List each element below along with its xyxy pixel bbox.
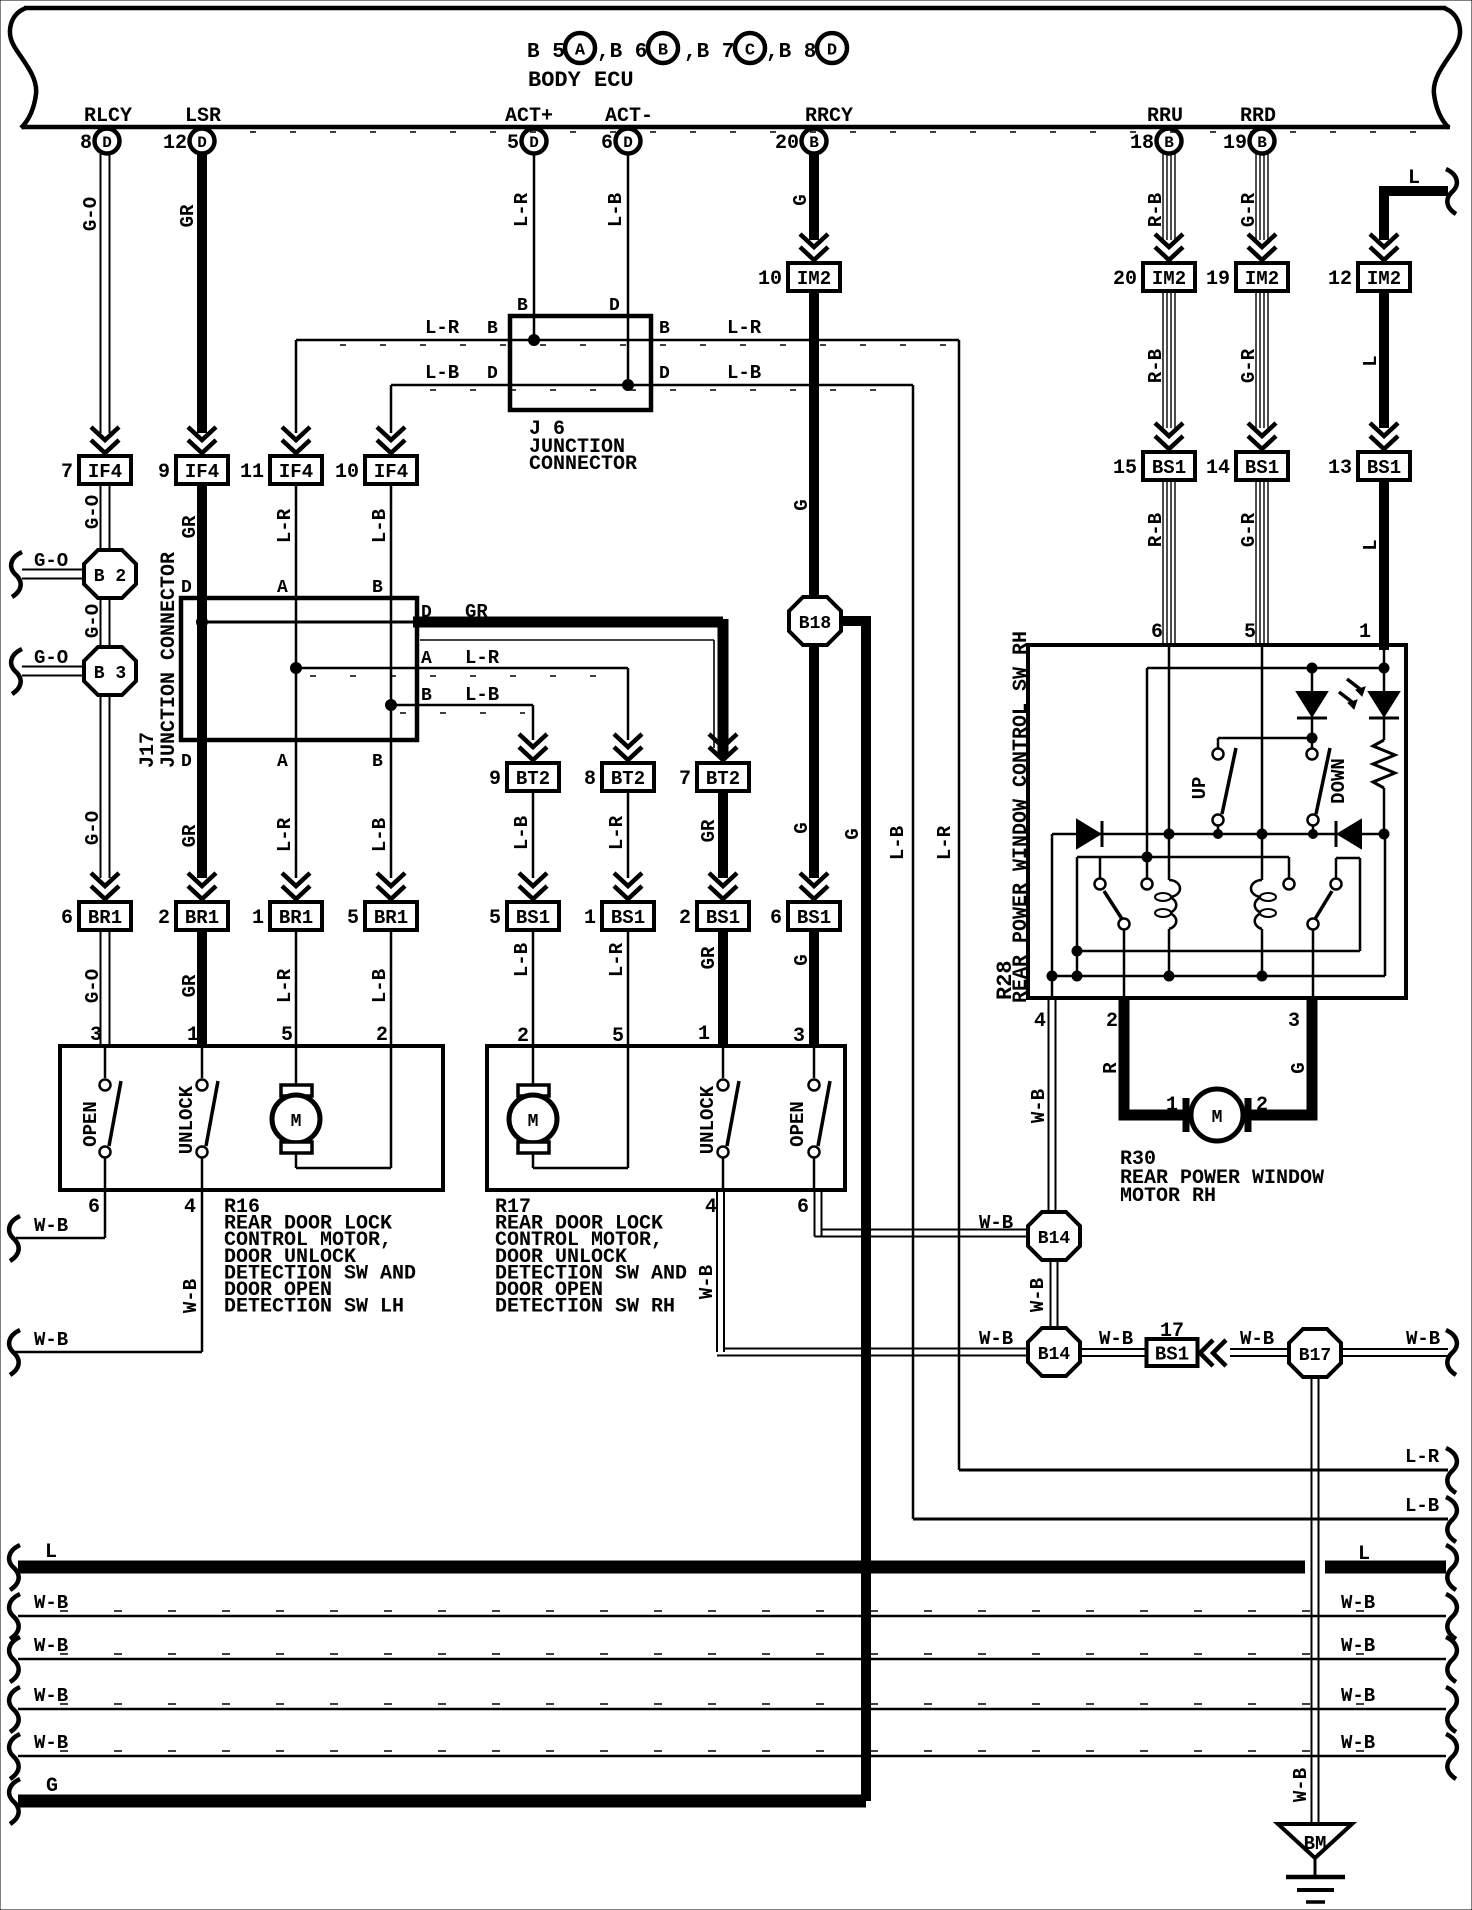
- diode D1 (down) feeding switch contacts: [1311, 668, 1314, 692]
- header circled letter D: [817, 33, 847, 63]
- R28 pin 6 wire to relay coil 1: [1168, 645, 1171, 880]
- arrow into 6 BS1: [800, 873, 828, 886]
- svg-text:W-B: W-B: [34, 1635, 68, 1657]
- OPEN switch in R16: [104, 1046, 107, 1078]
- ECU pin 6 (D) ACT-: [616, 129, 641, 154]
- wire W-B from R17 pin 4 to splice B14 lower: [716, 1190, 718, 1352]
- arrow into 8 BT2: [614, 734, 642, 747]
- svg-text:L-R: L-R: [465, 647, 500, 669]
- arrow out of 17 BS1 (left): [1200, 1340, 1213, 1366]
- motor R30 body: [1191, 1089, 1243, 1141]
- svg-text:W-B: W-B: [34, 1329, 68, 1351]
- wire L-B from IF4 into J17: [390, 484, 393, 600]
- connector 6 BR1: [79, 902, 131, 930]
- svg-text:ACT-: ACT-: [605, 105, 653, 128]
- connector 9 IF4: [176, 456, 228, 484]
- svg-text:11: 11: [240, 461, 264, 484]
- wire W-B from R16 pin 4 to page edge: [201, 1190, 204, 1352]
- LED light arrows: [1347, 679, 1360, 689]
- svg-text:B14: B14: [1038, 1345, 1071, 1365]
- svg-text:L-B: L-B: [511, 943, 533, 977]
- svg-text:L: L: [1408, 167, 1420, 190]
- connector 20 IM2: [1143, 263, 1195, 291]
- svg-text:D: D: [623, 134, 633, 152]
- connector 5 BS1: [507, 902, 559, 930]
- wire L-R from 8 BT2 to 1 BS1: [627, 791, 630, 878]
- wire L-R from BS1 to R17 pin 5: [627, 930, 630, 1046]
- svg-text:G: G: [790, 194, 812, 205]
- wire R-B from pin 18 RRU to 20 IM2: [1162, 154, 1164, 240]
- svg-text:W-B: W-B: [180, 1279, 202, 1313]
- connector 2 BS1: [697, 902, 749, 930]
- svg-text:J17: J17: [137, 732, 160, 768]
- junction dot L-R in J17: [291, 663, 302, 674]
- svg-text:L: L: [1358, 1543, 1370, 1566]
- svg-text:G: G: [1288, 1062, 1310, 1073]
- svg-text:G-O: G-O: [34, 550, 68, 572]
- svg-text:ACT+: ACT+: [505, 105, 553, 128]
- ground stem and bars: [1314, 1858, 1317, 1877]
- svg-text:B: B: [372, 752, 383, 772]
- wire G-O from B3 to BR1: [100, 695, 102, 878]
- svg-text:B: B: [517, 296, 528, 316]
- svg-text:6: 6: [601, 132, 613, 155]
- wire L-R from BR1 to R16 pin 5: [295, 930, 298, 1046]
- wire G-R from BS1 to R28 pin 5: [1255, 480, 1257, 645]
- R28 rear power window control switch RH box: [1028, 645, 1406, 998]
- connector 1 BS1: [602, 902, 654, 930]
- svg-text:R: R: [1100, 1062, 1122, 1074]
- svg-text:G-R: G-R: [1238, 512, 1260, 547]
- junction connector J17 box: [181, 598, 417, 740]
- svg-text:IF4: IF4: [374, 461, 408, 483]
- arrow into 20 IM2: [1155, 234, 1183, 247]
- wire G-O from pin 8 to connector IF4: [100, 154, 102, 433]
- svg-text:IF4: IF4: [279, 461, 313, 483]
- svg-text:RRCY: RRCY: [805, 105, 853, 128]
- svg-text:M: M: [1212, 1108, 1223, 1128]
- arrow into 10 IM2: [800, 234, 828, 247]
- svg-text:G: G: [791, 499, 813, 510]
- connector 12 IM2: [1358, 263, 1410, 291]
- wire L-R from IF4 into J17: [295, 484, 298, 600]
- svg-text:L-R: L-R: [727, 317, 762, 339]
- svg-text:W-B: W-B: [34, 1685, 68, 1707]
- svg-text:2: 2: [679, 907, 691, 930]
- svg-text:W-B: W-B: [34, 1592, 68, 1614]
- wire G-O from B2 to B3: [100, 598, 102, 648]
- junction dot ACT+ / L-R: [529, 335, 540, 346]
- wire G-R from pin 19 RRD to 19 IM2: [1255, 154, 1257, 240]
- relay frame vertical: [1076, 857, 1079, 976]
- bus wire W-B #1 across page: [18, 1615, 1446, 1618]
- arrow into 7 IF4: [91, 427, 119, 440]
- svg-text:3: 3: [1288, 1010, 1300, 1033]
- svg-text:R-B: R-B: [1145, 513, 1167, 547]
- connector 15 BS1: [1143, 452, 1195, 480]
- wire L-R branch (A) from J17 to 8 BT2: [296, 667, 628, 670]
- svg-text:BT2: BT2: [611, 768, 645, 790]
- svg-text:W-B: W-B: [34, 1732, 68, 1754]
- connector 2 BR1: [176, 902, 228, 930]
- wire G from B18 down to 6 BS1: [809, 645, 819, 878]
- wire L-B through J17 to BR1: [390, 600, 393, 878]
- wire L-B from J6 line down to 10 IF4: [390, 385, 393, 433]
- svg-text:W-B: W-B: [1406, 1328, 1440, 1350]
- svg-text:IM2: IM2: [797, 268, 831, 290]
- relay armature 2 pivot link: [1335, 858, 1338, 878]
- wire G-O from IF4 to B2: [100, 484, 102, 552]
- diode D2 (pointing right) on mid bus left: [1077, 820, 1100, 848]
- svg-text:GR: GR: [179, 824, 201, 847]
- R28 pin 5 wire to relay coil 2: [1261, 645, 1264, 880]
- connector 13 BS1: [1358, 452, 1410, 480]
- svg-text:6: 6: [1151, 621, 1163, 644]
- switch feed rail to UP contact: [1218, 737, 1312, 740]
- wire GR branch (D) from J17 to 7 BT2: [202, 621, 415, 624]
- motor R30 terminals: [1183, 1098, 1190, 1132]
- relay armature 1 pivot: [1095, 879, 1106, 890]
- svg-text:JUNCTION CONNECTOR: JUNCTION CONNECTOR: [158, 552, 181, 768]
- arrow into 1 BR1: [282, 873, 310, 886]
- svg-text:OPEN: OPEN: [787, 1101, 809, 1147]
- svg-text:,B 8: ,B 8: [766, 41, 816, 64]
- relay fixed contact 1 drop: [1146, 668, 1149, 878]
- wire GR thick from 7 BT2 to 2 BS1: [718, 791, 728, 878]
- svg-text:BM: BM: [1304, 1833, 1327, 1855]
- svg-text:5: 5: [1244, 621, 1256, 644]
- svg-text:UP: UP: [1189, 777, 1211, 800]
- relay coil 1: [1169, 880, 1180, 929]
- wire G branch from B18 right going down to ground bus: [840, 621, 866, 1801]
- R28 internal top rail: [1147, 667, 1385, 670]
- svg-text:B: B: [421, 686, 432, 706]
- svg-text:L-B: L-B: [369, 818, 391, 852]
- wire L-R vertical from J6 to bottom right bus: [958, 340, 961, 1470]
- svg-text:L-R: L-R: [274, 968, 296, 1003]
- svg-text:RLCY: RLCY: [84, 105, 132, 128]
- R28 internal mid bus: [1052, 833, 1078, 836]
- svg-text:4: 4: [184, 1196, 196, 1219]
- svg-text:BS1: BS1: [1367, 457, 1401, 479]
- page edge brace: [11, 552, 22, 597]
- svg-text:10: 10: [335, 461, 359, 484]
- svg-text:G-O: G-O: [80, 197, 102, 231]
- bus wire L-R to right page edge: [959, 1469, 1448, 1472]
- svg-text:L-R: L-R: [274, 508, 296, 543]
- motor return wire to pin 2 in R16: [295, 1152, 298, 1168]
- R28 pin 4 wire exit: [1051, 976, 1054, 998]
- svg-text:L-R: L-R: [934, 825, 956, 860]
- svg-text:W-B: W-B: [696, 1265, 718, 1299]
- svg-text:6: 6: [797, 1196, 809, 1219]
- R16 rear door lock control motor LH box: [60, 1046, 443, 1190]
- svg-text:W-B: W-B: [34, 1215, 68, 1237]
- wire L-B vertical from J6 to bottom right bus: [912, 385, 915, 1519]
- svg-text:L-R: L-R: [274, 817, 296, 852]
- svg-text:BS1: BS1: [1152, 457, 1186, 479]
- svg-text:3: 3: [90, 1024, 102, 1047]
- svg-text:B 3: B 3: [94, 664, 126, 684]
- svg-text:5: 5: [507, 132, 519, 155]
- svg-text:W-B: W-B: [1027, 1278, 1049, 1312]
- svg-text:M: M: [528, 1112, 539, 1132]
- svg-text:L-R: L-R: [606, 942, 628, 977]
- svg-text:5: 5: [347, 907, 359, 930]
- wire GR from BS1 to R17 pin 1: [718, 930, 728, 1046]
- DOWN switch fixed contact feed: [1311, 738, 1314, 748]
- connector 10 IM2: [788, 263, 840, 291]
- junction dot frame/return rail: [1072, 946, 1082, 956]
- wire W-B from R28 pin 4 down to B14 upper: [1048, 998, 1050, 1212]
- svg-text:L-B: L-B: [511, 816, 533, 850]
- wire W-B from B17 down to ground: [1311, 1377, 1313, 1822]
- relay armature 1 pivot link: [1099, 857, 1102, 878]
- arrow into 5 BR1: [377, 873, 405, 886]
- svg-text:D: D: [197, 134, 207, 152]
- svg-text:BR1: BR1: [185, 907, 219, 929]
- svg-text:L: L: [1360, 355, 1382, 366]
- bus wire L-B to right page edge: [913, 1518, 1448, 1521]
- junction dot L-B in J17: [386, 700, 397, 711]
- svg-text:9: 9: [489, 768, 501, 791]
- page edge brace: [1446, 1448, 1457, 1493]
- svg-text:W-B: W-B: [1099, 1328, 1133, 1350]
- svg-text:IM2: IM2: [1245, 268, 1279, 290]
- svg-text:G-O: G-O: [82, 604, 104, 638]
- svg-text:G: G: [842, 828, 864, 839]
- svg-text:BR1: BR1: [279, 907, 313, 929]
- UP switch fixed contact: [1213, 749, 1224, 760]
- svg-text:GR: GR: [698, 946, 720, 969]
- connector 1 BR1: [270, 902, 322, 930]
- svg-text:W-B: W-B: [1341, 1732, 1375, 1754]
- svg-text:2: 2: [158, 907, 170, 930]
- wire W-B from B17 to right page edge: [1340, 1348, 1448, 1350]
- svg-text:L-R: L-R: [425, 317, 460, 339]
- ECU band left torn edge: [10, 8, 36, 128]
- svg-text:8: 8: [80, 132, 92, 155]
- relay coil 2: [1251, 880, 1262, 929]
- svg-text:1: 1: [1166, 1094, 1178, 1117]
- wire G-O stub to page edge at B3: [22, 666, 84, 668]
- svg-text:RRD: RRD: [1240, 105, 1276, 128]
- bus wire W-B #4 across page: [18, 1755, 1446, 1758]
- svg-text:UNLOCK: UNLOCK: [697, 1085, 719, 1154]
- relay fixed contact 2 drop: [1288, 857, 1291, 878]
- page edge brace: [1446, 1330, 1457, 1375]
- connector 10 IF4: [365, 456, 417, 484]
- svg-text:D: D: [421, 603, 432, 623]
- svg-text:1: 1: [187, 1024, 199, 1047]
- arrow into 7 BT2: [709, 734, 737, 747]
- junction dot top rail / diode branch: [1307, 663, 1317, 673]
- svg-text:W-B: W-B: [979, 1328, 1013, 1350]
- svg-text:,B 7: ,B 7: [684, 41, 734, 64]
- wire W-B from B14 to 17 BS1: [1080, 1348, 1147, 1350]
- arrow into 5 BS1: [519, 873, 547, 886]
- svg-text:13: 13: [1328, 457, 1352, 480]
- wire L-B horizontal through J6: [391, 384, 913, 387]
- UP switch blade: [1222, 748, 1236, 814]
- arrow into 10 IF4: [377, 427, 405, 440]
- svg-text:B 2: B 2: [94, 567, 126, 587]
- junction dot ACT- / L-B: [623, 380, 634, 391]
- svg-text:R-B: R-B: [1145, 349, 1167, 383]
- motor in R17: [532, 1046, 535, 1086]
- page edge brace: [11, 649, 22, 694]
- wire L-R through J17 to BR1: [295, 600, 298, 878]
- ECU pin 18 (B) RRU: [1157, 129, 1182, 154]
- svg-text:W-B: W-B: [1341, 1685, 1375, 1707]
- junction dot switch feed rail: [1307, 733, 1317, 743]
- splice B 2: [84, 550, 136, 598]
- svg-text:UNLOCK: UNLOCK: [176, 1085, 198, 1154]
- svg-text:5: 5: [281, 1024, 293, 1047]
- connector 9 BT2: [507, 763, 559, 791]
- svg-text:W-B: W-B: [1240, 1328, 1274, 1350]
- wire G-O from BR1 to R16 pin 3: [100, 930, 102, 1046]
- svg-text:L-R: L-R: [511, 192, 533, 227]
- page edge brace: [9, 1330, 20, 1375]
- arrow into 9 IF4: [188, 427, 216, 440]
- svg-text:L-B: L-B: [465, 684, 499, 706]
- wire L-B from BS1 to R17 pin 2: [532, 930, 535, 1046]
- svg-text:G-O: G-O: [82, 811, 104, 845]
- svg-text:B: B: [1164, 134, 1174, 152]
- ECU pin 19 (B) RRD: [1250, 129, 1275, 154]
- svg-text:10: 10: [758, 268, 782, 291]
- svg-text:1: 1: [698, 1023, 710, 1046]
- svg-text:A: A: [421, 649, 432, 669]
- svg-text:B 5: B 5: [527, 41, 565, 64]
- svg-text:BS1: BS1: [706, 907, 740, 929]
- scan artifacts: [340, 344, 950, 346]
- wire L-B from BR1 to R16 pin 2: [390, 930, 393, 1046]
- svg-text:L-B: L-B: [887, 826, 909, 860]
- svg-text:G-R: G-R: [1238, 348, 1260, 383]
- svg-text:7: 7: [61, 461, 73, 484]
- wire L-R from J6 line down to 11 IF4: [295, 340, 298, 433]
- svg-text:GR: GR: [179, 974, 201, 997]
- svg-text:GR: GR: [465, 601, 488, 623]
- wire W-B between B14 splices: [1050, 1260, 1052, 1328]
- splice B17: [1289, 1329, 1341, 1377]
- svg-text:1: 1: [252, 907, 264, 930]
- svg-text:REAR POWER WINDOW CONTROL SW R: REAR POWER WINDOW CONTROL SW RH: [1010, 631, 1033, 1003]
- svg-text:19: 19: [1223, 132, 1247, 155]
- svg-text:LSR: LSR: [185, 105, 221, 128]
- arrow into 6 BR1: [91, 873, 119, 886]
- OPEN switch in R17: [813, 1046, 816, 1078]
- junction dots bottom rail: [1047, 971, 1057, 981]
- svg-text:7: 7: [679, 768, 691, 791]
- svg-text:W-B: W-B: [1290, 1768, 1312, 1802]
- svg-text:G: G: [46, 1775, 58, 1798]
- wire W-B from R16 pin 6 to page edge: [104, 1190, 107, 1238]
- wire G from BS1 to R17 pin 3: [809, 930, 819, 1046]
- svg-text:L-R: L-R: [606, 815, 628, 850]
- svg-text:A: A: [575, 42, 586, 61]
- svg-text:L: L: [1360, 539, 1382, 550]
- svg-text:BR1: BR1: [374, 907, 408, 929]
- svg-text:14: 14: [1206, 457, 1230, 480]
- arrow into 14 BS1: [1248, 423, 1276, 436]
- svg-text:6: 6: [770, 907, 782, 930]
- connector 6 BS1: [788, 902, 840, 930]
- svg-text:B17: B17: [1299, 1346, 1331, 1366]
- svg-text:BR1: BR1: [88, 907, 122, 929]
- svg-text:BS1: BS1: [611, 907, 645, 929]
- svg-text:B: B: [487, 319, 498, 339]
- svg-text:20: 20: [1113, 268, 1137, 291]
- arrow into 9 BT2: [519, 734, 547, 747]
- arrow into 2 BS1: [709, 873, 737, 886]
- svg-text:BS1: BS1: [797, 907, 831, 929]
- R17 rear door lock control motor RH box: [487, 1046, 845, 1190]
- svg-text:GR: GR: [179, 515, 201, 538]
- svg-text:18: 18: [1130, 132, 1154, 155]
- arrow into 12 IM2: [1370, 234, 1398, 247]
- relay pivot rail: [1077, 856, 1289, 859]
- svg-text:DETECTION SW LH: DETECTION SW LH: [224, 1296, 404, 1319]
- junction dot contact 1 rail: [1142, 852, 1152, 862]
- page edge brace: [9, 1216, 20, 1261]
- connector 19 IM2: [1236, 263, 1288, 291]
- svg-text:DETECTION SW RH: DETECTION SW RH: [495, 1296, 675, 1319]
- ECU pin 5 (D) ACT+: [522, 129, 547, 154]
- resistor in series with LED: [1383, 718, 1386, 740]
- svg-text:D: D: [487, 364, 498, 384]
- splice B14 (upper): [1028, 1212, 1080, 1260]
- wire G thick from motor to R28 pin 3: [1251, 998, 1312, 1115]
- arrow into 19 IM2: [1248, 234, 1276, 247]
- svg-text:2: 2: [1256, 1094, 1268, 1117]
- svg-text:L-B: L-B: [727, 362, 761, 384]
- wire R thick from R28 pin 2 to motor: [1124, 998, 1183, 1115]
- svg-text:1: 1: [1359, 621, 1371, 644]
- splice B 3: [84, 647, 136, 695]
- wire GR from IF4 into J17: [197, 484, 207, 600]
- ground BM triangle: [1278, 1824, 1352, 1858]
- arrow into 2 BR1: [188, 873, 216, 886]
- arrow into 15 BS1: [1155, 423, 1183, 436]
- svg-text:D: D: [529, 134, 539, 152]
- relay armature 1 blade: [1104, 891, 1122, 919]
- svg-text:BS1: BS1: [1245, 457, 1279, 479]
- svg-text:L-B: L-B: [605, 193, 627, 227]
- wire GR through J17 to BR1: [197, 600, 207, 878]
- svg-text:B14: B14: [1038, 1229, 1071, 1249]
- relay armature 2 contact: [1308, 919, 1319, 930]
- svg-text:B: B: [809, 134, 819, 152]
- svg-text:L-B: L-B: [369, 509, 391, 543]
- wire R-B from IM2 to 15 BS1: [1162, 291, 1164, 428]
- svg-text:RRU: RRU: [1147, 105, 1183, 128]
- svg-text:1: 1: [584, 907, 596, 930]
- svg-text:D: D: [609, 296, 620, 316]
- svg-text:5: 5: [489, 907, 501, 930]
- header circled letter B: [648, 33, 678, 63]
- wire L from BS1 to R28 pin 1: [1379, 480, 1389, 650]
- svg-text:2: 2: [376, 1024, 388, 1047]
- junction dot top rail / pin1: [1379, 663, 1389, 673]
- svg-text:GR: GR: [698, 819, 720, 842]
- svg-text:15: 15: [1113, 457, 1137, 480]
- bus wire W-B #2 across page: [18, 1658, 1446, 1661]
- wire GR (thick) from pin 12 to connector IF4: [197, 154, 207, 433]
- relay armature 2 blade: [1315, 891, 1332, 919]
